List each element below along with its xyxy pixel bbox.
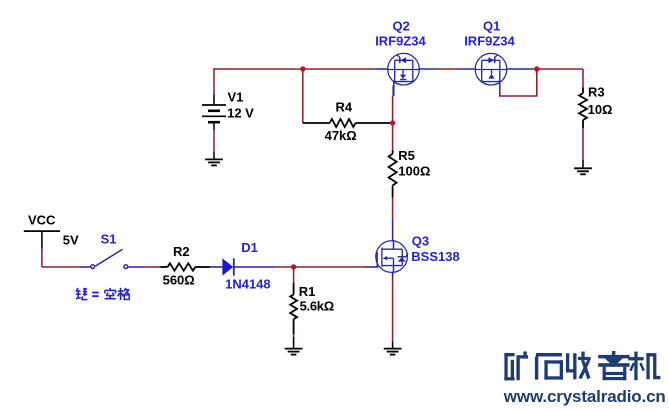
svg-text:R3: R3	[588, 85, 605, 100]
svg-text:IRF9Z34: IRF9Z34	[464, 34, 515, 49]
svg-text:1N4148: 1N4148	[225, 277, 271, 292]
svg-text:R1: R1	[299, 284, 316, 299]
svg-text:5.6kΩ: 5.6kΩ	[300, 299, 334, 314]
svg-text:Q3: Q3	[412, 233, 429, 248]
svg-text:www.crystalradio.cn: www.crystalradio.cn	[503, 387, 666, 406]
svg-text:IRF9Z34: IRF9Z34	[375, 34, 426, 49]
svg-text:47kΩ: 47kΩ	[325, 128, 357, 143]
svg-text:VCC: VCC	[28, 212, 56, 227]
svg-text:5V: 5V	[63, 233, 79, 248]
svg-text:S1: S1	[101, 232, 117, 247]
svg-text:BSS138: BSS138	[411, 249, 459, 264]
svg-text:Q2: Q2	[393, 18, 410, 33]
svg-text:R4: R4	[336, 100, 353, 115]
svg-text:D1: D1	[241, 240, 258, 255]
svg-text:10Ω: 10Ω	[588, 102, 613, 117]
svg-text:12 V: 12 V	[227, 106, 254, 121]
svg-text:100Ω: 100Ω	[398, 164, 430, 179]
svg-text:V1: V1	[228, 90, 244, 105]
svg-text:Q1: Q1	[483, 18, 500, 33]
svg-text:R2: R2	[173, 244, 190, 259]
svg-text:R5: R5	[398, 148, 415, 163]
svg-text:560Ω: 560Ω	[163, 273, 195, 288]
